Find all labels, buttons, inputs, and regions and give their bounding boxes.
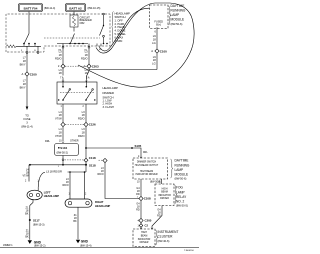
svg-text:(8W-10-15): (8W-10-15) — [88, 6, 101, 10]
svg-text:6. MAX: 6. MAX — [115, 35, 124, 39]
svg-text:RD: RD — [157, 214, 161, 217]
svg-text:MODULE: MODULE — [171, 18, 185, 22]
svg-text:OTHER: OTHER — [70, 139, 79, 142]
svg-text:(8W-15-4): (8W-15-4) — [80, 243, 92, 247]
svg-text:DRL: DRL — [143, 152, 148, 154]
svg-text:DIMMER: DIMMER — [103, 91, 114, 95]
svg-text:RD/O: RD/O — [55, 56, 62, 60]
svg-text:S117: S117 — [33, 218, 40, 222]
svg-text:DRIVER: DRIVER — [160, 198, 169, 200]
svg-text:A: A — [151, 49, 153, 53]
svg-text:INDICATOR DRIVER: INDICATOR DRIVER — [135, 173, 157, 176]
svg-text:4. DOME: 4. DOME — [115, 29, 126, 33]
svg-text:FOG: FOG — [176, 186, 183, 190]
svg-text:HEADLAMP: HEADLAMP — [95, 204, 110, 208]
svg-text:LG: LG — [152, 62, 156, 66]
svg-text:1. OFF: 1. OFF — [115, 18, 124, 22]
svg-text:DAYTIME: DAYTIME — [175, 159, 189, 163]
svg-text:BK: BK — [25, 236, 29, 239]
svg-text:(8W-11-4): (8W-11-4) — [21, 124, 32, 128]
svg-text:C203: C203 — [92, 64, 99, 68]
svg-text:BEAM: BEAM — [161, 191, 168, 194]
svg-text:7. MIN: 7. MIN — [115, 39, 123, 43]
svg-text:BK: BK — [73, 220, 77, 223]
svg-text:L3 18 RD/OR: L3 18 RD/OR — [46, 170, 62, 174]
svg-text:HEADLAMP: HEADLAMP — [44, 194, 59, 198]
svg-text:GND: GND — [81, 240, 89, 244]
svg-text:3. FLASH: 3. FLASH — [103, 105, 115, 109]
svg-text:DAYTIME: DAYTIME — [171, 4, 185, 8]
svg-text:BATT F04: BATT F04 — [24, 6, 38, 10]
svg-text:INDICATOR: INDICATOR — [138, 238, 151, 241]
svg-text:S118: S118 — [89, 163, 96, 167]
svg-text:C118: C118 — [89, 156, 96, 160]
svg-text:S105: S105 — [135, 144, 142, 148]
svg-text:2 A: 2 A — [86, 76, 90, 79]
svg-text:(8W-40-6): (8W-40-6) — [158, 239, 170, 243]
svg-text:HEADLAMP: HEADLAMP — [103, 86, 119, 90]
svg-text:CLUSTER: CLUSTER — [158, 235, 174, 239]
svg-text:INDICATOR: INDICATOR — [158, 194, 171, 197]
svg-text:C100: C100 — [160, 49, 167, 53]
svg-text:BK/Y: BK/Y — [20, 62, 26, 66]
svg-text:NO. 2: NO. 2 — [176, 200, 185, 204]
svg-text:(8W-50-6): (8W-50-6) — [175, 177, 187, 181]
svg-text:LAMP: LAMP — [176, 190, 185, 194]
svg-text:5. PANEL: 5. PANEL — [115, 32, 127, 36]
svg-text:2. PARK: 2. PARK — [115, 22, 125, 26]
svg-text:RD: RD — [136, 193, 140, 196]
svg-text:LAMP: LAMP — [175, 168, 184, 172]
svg-text:S104: S104 — [60, 146, 67, 150]
svg-text:LAMP: LAMP — [171, 13, 180, 17]
svg-text:DRIVER: DRIVER — [140, 242, 149, 244]
svg-text:LEFT: LEFT — [44, 190, 51, 194]
svg-text:BK: BK — [25, 213, 29, 216]
svg-text:VT/W: VT/W — [23, 175, 30, 178]
svg-text:MODULE: MODULE — [175, 173, 189, 177]
svg-text:(8W-50-6): (8W-50-6) — [150, 181, 161, 184]
svg-text:LG: LG — [152, 41, 156, 45]
svg-text:BEAM: BEAM — [141, 235, 148, 238]
svg-text:(8W-50-5): (8W-50-5) — [176, 204, 188, 208]
svg-text:HIGH: HIGH — [162, 189, 168, 191]
svg-text:RD/O: RD/O — [81, 56, 88, 60]
svg-text:C126: C126 — [89, 123, 96, 127]
svg-text:TJ004150: TJ004150 — [184, 250, 195, 252]
svg-text:CB2: CB2 — [80, 21, 86, 25]
svg-text:RD/O: RD/O — [63, 184, 69, 187]
svg-text:RELAY: RELAY — [176, 195, 187, 199]
svg-text:BATT A2: BATT A2 — [69, 6, 82, 10]
svg-text:(8W-15-3): (8W-15-3) — [33, 223, 45, 227]
svg-text:RD/O: RD/O — [78, 117, 85, 121]
svg-text:RUNNING: RUNNING — [175, 163, 190, 167]
svg-text:RUNNING: RUNNING — [171, 9, 186, 13]
svg-text:J998W-1: J998W-1 — [3, 244, 13, 247]
svg-text:(8W-15-2): (8W-15-2) — [34, 244, 46, 248]
svg-text:C200: C200 — [145, 219, 152, 223]
svg-text:RD/O: RD/O — [98, 173, 104, 176]
svg-text:(8W-50-6): (8W-50-6) — [171, 22, 183, 26]
svg-text:SWITCH: SWITCH — [115, 15, 126, 19]
svg-text:BK/Y: BK/Y — [20, 85, 26, 89]
svg-text:RIGHT: RIGHT — [95, 200, 104, 204]
svg-text:FUSE: FUSE — [23, 117, 30, 121]
svg-text:B(+): B(+) — [156, 23, 161, 27]
svg-text:RD/O: RD/O — [78, 134, 85, 138]
svg-text:VT/W: VT/W — [55, 134, 62, 138]
svg-text:(8W-11-4): (8W-11-4) — [44, 6, 55, 10]
svg-text:INSTRUMENT: INSTRUMENT — [158, 230, 179, 234]
svg-text:HIGH BEAM: HIGH BEAM — [140, 170, 153, 173]
svg-text:HIGH: HIGH — [141, 232, 147, 234]
svg-text:7 A: 7 A — [60, 76, 64, 79]
svg-text:3. HEAD: 3. HEAD — [115, 25, 125, 29]
svg-text:DRL: DRL — [45, 140, 51, 143]
svg-text:RD: RD — [136, 209, 140, 212]
svg-text:TO: TO — [25, 113, 29, 117]
svg-text:C100: C100 — [30, 72, 37, 76]
svg-text:C108: C108 — [144, 197, 151, 201]
svg-text:HIGH-BEAM OUTPUT: HIGH-BEAM OUTPUT — [135, 164, 159, 167]
svg-text:C2: C2 — [145, 224, 149, 228]
svg-text:VT/W: VT/W — [55, 117, 62, 121]
svg-text:DIMMER SWITCH: DIMMER SWITCH — [137, 162, 157, 164]
svg-text:(8W-50-2): (8W-50-2) — [57, 150, 69, 154]
svg-text:A: A — [22, 72, 24, 76]
